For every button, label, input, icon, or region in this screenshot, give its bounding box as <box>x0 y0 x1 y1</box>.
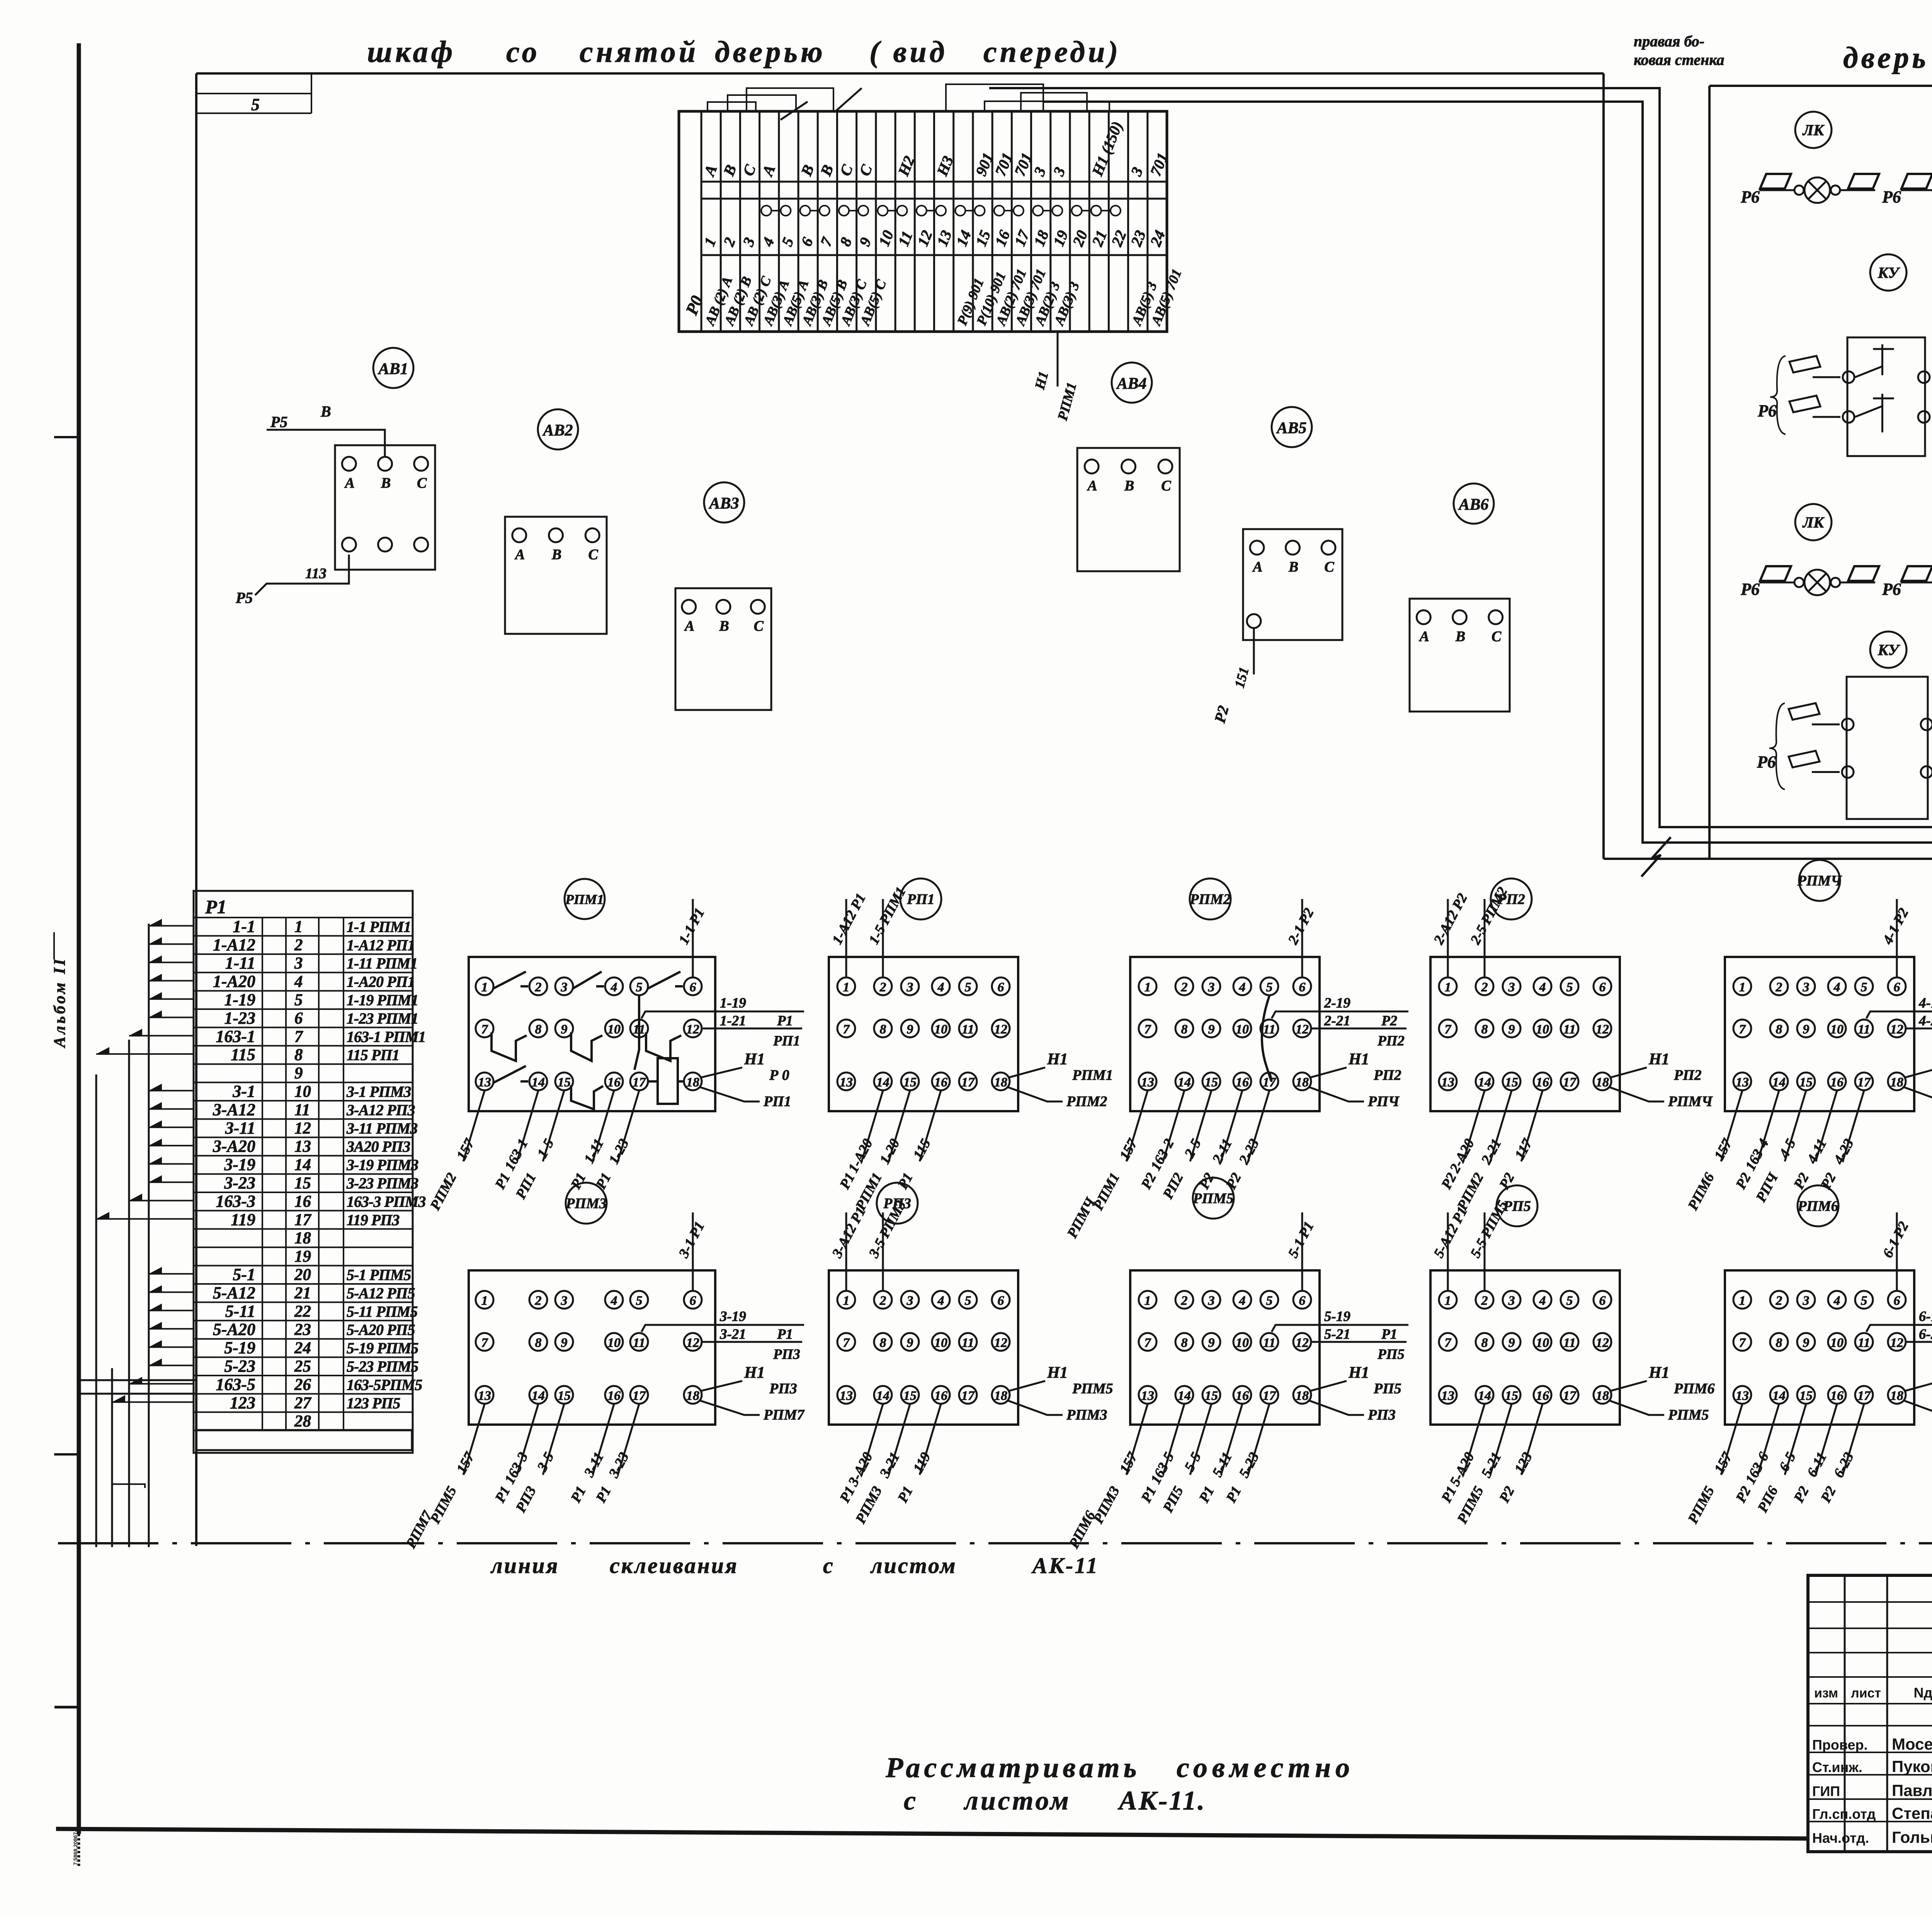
svg-text:16: 16 <box>607 1389 621 1403</box>
svg-text:4-19: 4-19 <box>1918 995 1932 1011</box>
svg-text:7: 7 <box>1445 1336 1452 1350</box>
svg-text:6: 6 <box>998 980 1004 994</box>
svg-text:1-19 РПМ1: 1-19 РПМ1 <box>347 991 418 1009</box>
svg-text:АВ4: АВ4 <box>1116 375 1146 393</box>
svg-text:Р6: Р6 <box>1882 187 1901 206</box>
svg-text:АВ5: АВ5 <box>1276 419 1306 437</box>
svg-text:15: 15 <box>1205 1389 1218 1403</box>
svg-text:13: 13 <box>1141 1389 1154 1403</box>
svg-text:дверь: дверь <box>1843 41 1929 74</box>
relay РПМ6 terminal 11 wires <box>1866 1325 1932 1332</box>
svg-text:14: 14 <box>876 1389 889 1403</box>
svg-text:10: 10 <box>1536 1336 1549 1350</box>
svg-text:А: А <box>684 618 694 634</box>
svg-text:3-23: 3-23 <box>224 1173 255 1192</box>
svg-text:14: 14 <box>532 1389 545 1403</box>
svg-text:РП2: РП2 <box>1377 1033 1405 1049</box>
svg-text:12: 12 <box>1596 1336 1609 1350</box>
svg-text:6: 6 <box>1599 1294 1606 1308</box>
relay РПМ5 H1 wires <box>1310 1381 1347 1391</box>
relay РПМЧ label <box>1799 860 1840 901</box>
relay РПМ3 H1 wires <box>701 1381 742 1391</box>
svg-text:16: 16 <box>607 1075 621 1090</box>
svg-text:РПЧ: РПЧ <box>1367 1093 1400 1110</box>
svg-text:8: 8 <box>1776 1022 1782 1037</box>
svg-text:15: 15 <box>1505 1075 1518 1090</box>
svg-text:5-А12 РП5: 5-А12 РП5 <box>347 1284 415 1302</box>
svg-text:Р6: Р6 <box>1740 580 1760 599</box>
svg-text:3-11 РПМ3: 3-11 РПМ3 <box>346 1120 417 1137</box>
svg-text:АК-11.: АК-11. <box>1117 1786 1206 1816</box>
svg-text:9: 9 <box>1208 1336 1215 1350</box>
svg-text:8: 8 <box>1181 1336 1188 1350</box>
svg-text:26: 26 <box>294 1376 311 1394</box>
svg-text:РП1: РП1 <box>906 891 935 907</box>
circuit breaker АВ1 body <box>335 445 435 570</box>
svg-text:10: 10 <box>934 1022 947 1037</box>
relay РПМ6 body <box>1725 1270 1914 1425</box>
relay РПМ1 bottom wires <box>463 1091 485 1161</box>
svg-text:16: 16 <box>1236 1389 1249 1403</box>
svg-text:РПМЧ: РПМЧ <box>1668 1093 1713 1110</box>
svg-text:5: 5 <box>251 95 260 114</box>
svg-text:3: 3 <box>294 954 303 972</box>
svg-text:Н1: Н1 <box>1348 1050 1369 1068</box>
svg-text:17: 17 <box>1857 1075 1871 1090</box>
relay РП1 body <box>829 957 1018 1111</box>
svg-text:8: 8 <box>535 1022 542 1037</box>
control switch КУ label <box>1870 632 1906 668</box>
svg-text:4: 4 <box>1539 1294 1546 1308</box>
relay РП1 H1 wires <box>1009 1067 1045 1078</box>
svg-text:9: 9 <box>1208 1022 1215 1037</box>
svg-text:4: 4 <box>1239 980 1246 994</box>
control switch КУ label <box>1870 254 1906 291</box>
svg-text:7: 7 <box>294 1028 303 1046</box>
svg-text:3: 3 <box>561 1294 568 1308</box>
svg-text:5: 5 <box>965 980 971 994</box>
svg-text:18: 18 <box>686 1075 699 1090</box>
svg-text:А: А <box>514 546 525 563</box>
svg-text:РПМ5: РПМ5 <box>1192 1190 1234 1207</box>
relay РП3 H1 wires <box>1009 1381 1045 1391</box>
svg-text:6: 6 <box>294 1009 303 1027</box>
svg-text:РП2: РП2 <box>1673 1067 1702 1083</box>
svg-text:17: 17 <box>633 1389 646 1403</box>
terminal block P0 <box>679 111 1167 332</box>
svg-text:3: 3 <box>906 1294 913 1308</box>
svg-text:снятой: снятой <box>580 35 699 68</box>
svg-text:РПМ5: РПМ5 <box>1072 1381 1113 1397</box>
svg-text:5-А12: 5-А12 <box>213 1283 255 1302</box>
svg-text:Р1: Р1 <box>777 1326 793 1342</box>
svg-text:АВ2: АВ2 <box>542 422 573 439</box>
svg-text:3А20 РП3: 3А20 РП3 <box>346 1138 410 1155</box>
svg-text:16: 16 <box>934 1075 947 1090</box>
svg-text:Рассматривать: Рассматривать <box>885 1752 1140 1784</box>
svg-text:11: 11 <box>1563 1022 1576 1037</box>
relay РПМ6 terminals <box>1733 1291 1751 1309</box>
circuit breaker АВ3 label <box>704 482 744 523</box>
svg-text:9: 9 <box>1803 1022 1810 1037</box>
svg-text:9: 9 <box>561 1336 568 1350</box>
svg-text:2: 2 <box>535 980 542 994</box>
svg-text:14: 14 <box>1772 1389 1786 1403</box>
P0 terminal link circles <box>761 206 771 216</box>
svg-text:1-21: 1-21 <box>720 1013 746 1029</box>
svg-text:Н1: Н1 <box>1348 1364 1369 1382</box>
relay РП1 top wires <box>845 899 847 977</box>
relay РПМ1 contacts <box>493 972 526 989</box>
circuit breaker АВ2 body <box>505 517 607 634</box>
svg-text:3: 3 <box>1803 1294 1810 1308</box>
svg-text:Р2: Р2 <box>1381 1013 1397 1029</box>
svg-text:8: 8 <box>1481 1022 1488 1037</box>
svg-text:6: 6 <box>1299 980 1306 994</box>
svg-text:123 РП5: 123 РП5 <box>347 1394 400 1412</box>
svg-text:12: 12 <box>1296 1022 1309 1037</box>
svg-text:РПМ3: РПМ3 <box>1066 1407 1107 1423</box>
svg-text:1: 1 <box>481 1294 488 1308</box>
svg-text:23: 23 <box>294 1321 311 1339</box>
svg-text:Р6: Р6 <box>1882 580 1901 599</box>
relay РПМ5 label <box>1193 1178 1234 1219</box>
svg-text:7: 7 <box>481 1336 489 1350</box>
relay РПМ3 body <box>469 1270 715 1425</box>
svg-text:ЛК: ЛК <box>1802 514 1825 531</box>
svg-text:17: 17 <box>294 1211 312 1229</box>
svg-text:Р5: Р5 <box>270 413 287 431</box>
svg-text:Н1: Н1 <box>744 1050 765 1068</box>
svg-text:дверью: дверью <box>715 35 826 68</box>
svg-text:18: 18 <box>294 1229 311 1247</box>
svg-text:АВ3: АВ3 <box>708 495 739 512</box>
svg-text:15: 15 <box>558 1389 571 1403</box>
svg-text:6: 6 <box>1299 1294 1306 1308</box>
svg-text:Мосеенко: Мосеенко <box>1892 1735 1932 1753</box>
svg-text:РП2: РП2 <box>1373 1067 1401 1083</box>
svg-text:115 РП1: 115 РП1 <box>347 1046 399 1064</box>
svg-text:3: 3 <box>561 980 568 994</box>
relay РП2 body <box>1430 957 1620 1111</box>
svg-text:21: 21 <box>294 1284 311 1302</box>
svg-text:5-11: 5-11 <box>225 1302 255 1321</box>
svg-text:КУ: КУ <box>1878 264 1901 281</box>
relay РПМЧ H1 wires <box>1905 1067 1932 1078</box>
svg-text:8: 8 <box>294 1046 303 1064</box>
svg-text:2: 2 <box>535 1294 542 1308</box>
svg-text:14: 14 <box>1772 1075 1786 1090</box>
svg-text:РПМ7: РПМ7 <box>763 1407 805 1423</box>
relay РПМ5 bottom wires <box>1126 1404 1148 1475</box>
svg-text:ГИП: ГИП <box>1812 1783 1840 1799</box>
svg-text:12: 12 <box>1890 1022 1903 1037</box>
P0 jumper straps right group <box>985 101 1109 112</box>
svg-text:18: 18 <box>1296 1389 1309 1403</box>
svg-text:6: 6 <box>1599 980 1606 994</box>
svg-text:5-23 РПМ5: 5-23 РПМ5 <box>347 1358 418 1375</box>
svg-text:1: 1 <box>1145 980 1151 994</box>
svg-text:6-21: 6-21 <box>1919 1326 1932 1342</box>
svg-text:3-23 РПМ3: 3-23 РПМ3 <box>346 1175 418 1192</box>
relay РПМ2 bottom wires <box>1126 1091 1148 1161</box>
svg-text:Р1: Р1 <box>205 896 227 918</box>
svg-text:РПМ6: РПМ6 <box>1673 1381 1715 1397</box>
relay РПМ2 H1 wires <box>1310 1067 1347 1078</box>
svg-text:8: 8 <box>880 1022 886 1037</box>
svg-text:А: А <box>1252 559 1262 575</box>
svg-text:РПМ2: РПМ2 <box>1189 891 1231 907</box>
svg-text:РП3: РП3 <box>769 1381 797 1397</box>
svg-text:13: 13 <box>1441 1075 1454 1090</box>
svg-text:16: 16 <box>1236 1075 1249 1090</box>
svg-text:В: В <box>1455 628 1465 645</box>
relay РП5 H1 wires <box>1610 1381 1647 1391</box>
relay РП3 terminals <box>837 1291 855 1309</box>
svg-text:17: 17 <box>1563 1389 1577 1403</box>
svg-text:13: 13 <box>294 1137 311 1156</box>
relay РП3 top wires <box>845 1212 847 1290</box>
wire Р5-B to АВ1 <box>267 430 385 457</box>
svg-text:119 РП3: 119 РП3 <box>347 1211 399 1229</box>
svg-text:1: 1 <box>1145 1294 1151 1308</box>
svg-text:7: 7 <box>1145 1022 1152 1037</box>
svg-text:Ст.инж.: Ст.инж. <box>1812 1759 1862 1775</box>
svg-text:3-А12 РП3: 3-А12 РП3 <box>346 1101 415 1119</box>
svg-text:115: 115 <box>231 1045 255 1064</box>
svg-text:1-1: 1-1 <box>233 917 255 936</box>
svg-text:7: 7 <box>1445 1022 1452 1037</box>
КУ internal contacts <box>1855 366 1882 377</box>
relay РП5 body <box>1430 1270 1620 1425</box>
svg-text:4: 4 <box>1833 980 1840 994</box>
svg-text:С: С <box>754 618 764 634</box>
svg-text:4: 4 <box>611 980 617 994</box>
svg-text:3-1 РПМ3: 3-1 РПМ3 <box>346 1083 411 1100</box>
svg-text:Н1: Н1 <box>744 1364 765 1382</box>
relay РПМ1 body <box>469 957 715 1111</box>
svg-text:163-5РПМ5: 163-5РПМ5 <box>347 1376 422 1393</box>
svg-text:Р6: Р6 <box>1757 401 1777 420</box>
svg-text:12: 12 <box>686 1336 699 1350</box>
glue line (линия склеивания) <box>58 1542 1932 1544</box>
svg-text:Павлова: Павлова <box>1892 1781 1932 1800</box>
svg-text:12: 12 <box>686 1022 699 1037</box>
relay РП5 bottom wires <box>1463 1404 1485 1475</box>
svg-text:3-А12: 3-А12 <box>213 1100 255 1119</box>
svg-text:11: 11 <box>633 1336 645 1350</box>
relay РПМ5 terminal 11 wires <box>1272 1325 1408 1332</box>
svg-text:6: 6 <box>1894 980 1900 994</box>
svg-text:4: 4 <box>1833 1294 1840 1308</box>
svg-text:склеивания: склеивания <box>610 1553 738 1578</box>
svg-text:6: 6 <box>690 1294 696 1308</box>
svg-text:А: А <box>344 475 355 491</box>
relay РП2 H1 wires <box>1610 1067 1647 1078</box>
svg-text:1-11: 1-11 <box>225 953 255 972</box>
relay РПМ6 bottom wires <box>1721 1404 1742 1475</box>
svg-text:4: 4 <box>294 973 303 991</box>
svg-text:14: 14 <box>876 1075 889 1090</box>
svg-text:8: 8 <box>1181 1022 1188 1037</box>
relay РПМ2 terminals <box>1139 977 1156 995</box>
svg-text:11: 11 <box>962 1336 974 1350</box>
bus wire 1 (cabinet to door) <box>989 88 1932 1498</box>
svg-text:17: 17 <box>1263 1389 1277 1403</box>
circuit breaker АВ2 label <box>538 409 578 449</box>
svg-text:листом: листом <box>963 1786 1071 1816</box>
svg-text:14: 14 <box>1178 1389 1191 1403</box>
svg-text:АВ6: АВ6 <box>1458 496 1488 514</box>
svg-text:РПМ5: РПМ5 <box>1668 1407 1709 1423</box>
circuit breaker АВ5 body <box>1243 529 1342 640</box>
svg-text:8: 8 <box>880 1336 886 1350</box>
svg-text:5: 5 <box>1861 1294 1867 1308</box>
svg-text:17: 17 <box>961 1075 975 1090</box>
relay РП1 bottom wires <box>862 1091 883 1161</box>
border tick marks <box>54 436 79 438</box>
svg-text:13: 13 <box>840 1075 853 1090</box>
svg-text:3-19 РПМ3: 3-19 РПМ3 <box>346 1156 418 1174</box>
svg-text:6-19: 6-19 <box>1919 1309 1932 1325</box>
P0 jumper straps left group <box>707 102 756 111</box>
svg-text:1: 1 <box>481 980 488 994</box>
svg-text:В: В <box>719 618 729 634</box>
svg-text:13: 13 <box>840 1389 853 1403</box>
svg-text:РПМЧ: РПМЧ <box>1797 873 1843 889</box>
svg-text:11: 11 <box>1263 1022 1276 1037</box>
svg-text:6: 6 <box>998 1294 1004 1308</box>
svg-text:3: 3 <box>906 980 913 994</box>
svg-text:Альбом II: Альбом II <box>51 957 69 1049</box>
svg-text:5: 5 <box>1266 1294 1273 1308</box>
svg-text:Нач.отд.: Нач.отд. <box>1812 1830 1869 1846</box>
svg-text:Степаненко: Степаненко <box>1892 1804 1932 1822</box>
svg-text:5: 5 <box>1861 980 1867 994</box>
relay РПМ5 body <box>1130 1270 1320 1425</box>
svg-text:совместно: совместно <box>1177 1752 1354 1784</box>
svg-text:7: 7 <box>1739 1336 1747 1350</box>
svg-text:18: 18 <box>1596 1389 1609 1403</box>
svg-text:1-23 РПМ1: 1-23 РПМ1 <box>347 1010 418 1027</box>
svg-text:8: 8 <box>535 1336 542 1350</box>
svg-text:12: 12 <box>1890 1336 1903 1350</box>
relay РП3 label <box>877 1183 918 1224</box>
svg-text:15: 15 <box>903 1389 917 1403</box>
svg-text:листом: листом <box>870 1553 957 1578</box>
svg-text:14: 14 <box>532 1075 545 1090</box>
svg-text:7: 7 <box>1739 1022 1747 1037</box>
svg-text:5-1: 5-1 <box>233 1265 255 1284</box>
svg-text:20: 20 <box>294 1266 311 1284</box>
svg-text:Nдокум: Nдокум <box>1913 1685 1932 1701</box>
svg-text:РПМ6: РПМ6 <box>1797 1198 1838 1214</box>
svg-text:1-11 РПМ1: 1-11 РПМ1 <box>347 955 417 972</box>
svg-text:12: 12 <box>294 1119 311 1137</box>
svg-text:5: 5 <box>1566 1294 1573 1308</box>
svg-text:Н1: Н1 <box>1047 1364 1068 1382</box>
svg-text:113: 113 <box>305 565 327 582</box>
svg-text:9: 9 <box>907 1022 913 1037</box>
bottom harness lines <box>196 1429 412 1431</box>
Р1 harness verticals <box>148 924 150 1547</box>
svg-text:1: 1 <box>294 918 303 936</box>
svg-text:17: 17 <box>1563 1075 1577 1090</box>
svg-text:7: 7 <box>481 1022 489 1037</box>
svg-text:163-5: 163-5 <box>216 1375 255 1394</box>
relay РП2 bottom wires <box>1463 1091 1485 1161</box>
svg-text:3-А20: 3-А20 <box>213 1137 255 1156</box>
svg-text:7: 7 <box>843 1336 850 1350</box>
svg-text:11: 11 <box>1263 1336 1276 1350</box>
svg-text:163-1: 163-1 <box>216 1027 255 1046</box>
cabinet corner plate with 5 <box>196 93 311 94</box>
svg-text:Н1: Н1 <box>1648 1364 1670 1382</box>
svg-text:с: с <box>904 1786 916 1816</box>
svg-text:Р1: Р1 <box>777 1013 793 1029</box>
relay РПМ1 label circle <box>565 879 605 919</box>
svg-text:Н1: Н1 <box>1047 1050 1068 1068</box>
svg-text:РП3: РП3 <box>1367 1407 1396 1423</box>
lamp ЛК label <box>1795 112 1832 148</box>
relay РПМ2 body <box>1130 957 1320 1111</box>
title block frame <box>1808 1575 1932 1852</box>
page bottom border <box>56 1829 1808 1839</box>
svg-text:11: 11 <box>1858 1336 1870 1350</box>
svg-text:шкаф: шкаф <box>367 35 456 68</box>
svg-text:16: 16 <box>294 1192 311 1210</box>
wire break zigzag <box>1641 837 1671 877</box>
svg-text:13: 13 <box>1736 1389 1749 1403</box>
svg-text:18: 18 <box>994 1389 1007 1403</box>
svg-text:РП5: РП5 <box>1377 1347 1405 1362</box>
svg-text:линия: линия <box>490 1553 559 1578</box>
svg-text:РПМ3: РПМ3 <box>565 1195 607 1212</box>
svg-text:Провер.: Провер. <box>1812 1737 1868 1753</box>
svg-text:25: 25 <box>294 1357 311 1376</box>
svg-text:18: 18 <box>1890 1389 1903 1403</box>
svg-text:14: 14 <box>1478 1075 1491 1090</box>
svg-text:3-11: 3-11 <box>225 1119 255 1137</box>
svg-text:9: 9 <box>1803 1336 1810 1350</box>
svg-text:Гольцман: Гольцман <box>1892 1828 1932 1846</box>
svg-text:2: 2 <box>1776 1294 1782 1308</box>
svg-text:РПМ1: РПМ1 <box>1072 1067 1113 1083</box>
svg-text:10: 10 <box>607 1022 621 1037</box>
relay РПМЧ bottom wires <box>1721 1091 1742 1161</box>
svg-text:11: 11 <box>294 1101 310 1119</box>
svg-text:16: 16 <box>1536 1389 1549 1403</box>
svg-text:18: 18 <box>686 1389 699 1403</box>
svg-text:3-1: 3-1 <box>232 1082 255 1101</box>
svg-text:17: 17 <box>1857 1389 1871 1403</box>
relay РПМ2 terminal 11 wires <box>1272 1011 1408 1018</box>
relay РПМЧ terminals <box>1733 977 1751 995</box>
relay РПМ3 bottom wires <box>463 1404 485 1475</box>
svg-text:5-11 РПМ5: 5-11 РПМ5 <box>347 1303 417 1320</box>
svg-text:27: 27 <box>294 1394 312 1412</box>
svg-text:Пукова: Пукова <box>1892 1757 1932 1776</box>
svg-text:16: 16 <box>1536 1075 1549 1090</box>
svg-text:3: 3 <box>1208 1294 1215 1308</box>
svg-text:24: 24 <box>294 1339 311 1357</box>
relay РПМ5 terminals <box>1139 1291 1156 1309</box>
svg-text:12: 12 <box>1596 1022 1609 1037</box>
relay РПМ2 label <box>1190 878 1231 919</box>
svg-text:6: 6 <box>1894 1294 1900 1308</box>
svg-text:А: А <box>1087 478 1097 494</box>
svg-text:С: С <box>1161 478 1171 494</box>
